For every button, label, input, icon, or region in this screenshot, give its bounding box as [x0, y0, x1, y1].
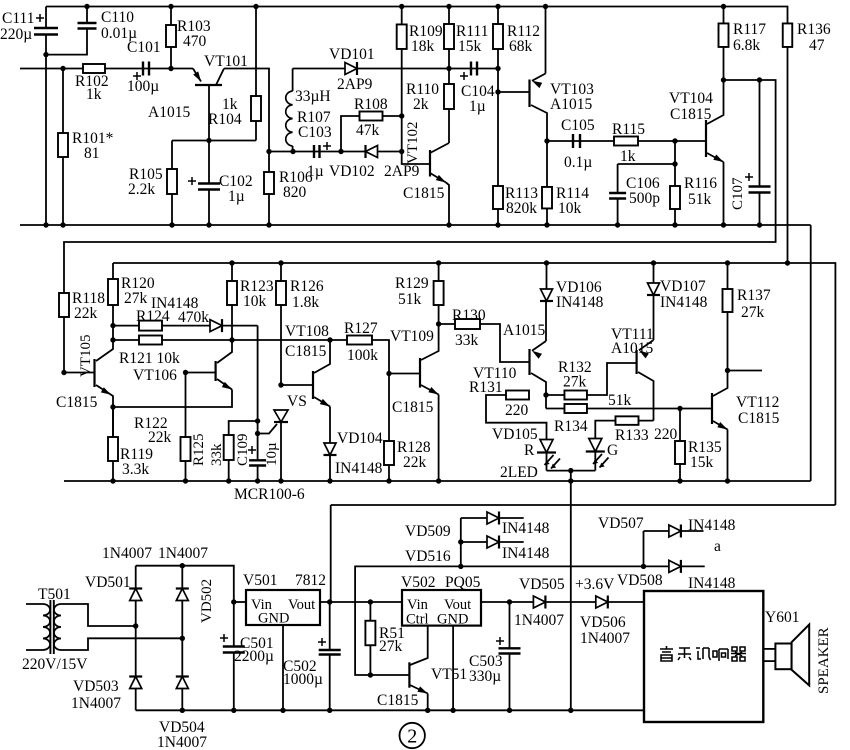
- svg-text:+3.6V: +3.6V: [575, 576, 615, 593]
- svg-text:2: 2: [407, 726, 417, 748]
- resistor R133 220: [616, 416, 639, 425]
- svg-text:1k: 1k: [86, 86, 102, 103]
- wire R130 line: [436, 321, 441, 326]
- svg-text:820k: 820k: [506, 200, 537, 217]
- svg-text:C1815: C1815: [285, 343, 327, 360]
- svg-text:Ctrl: Ctrl: [406, 612, 429, 628]
- wire middle ground rail: [64, 480, 811, 482]
- diode VD503 1N4007: [130, 677, 142, 689]
- wire +12V output line: [320, 601, 402, 603]
- resistor R116: [674, 164, 676, 186]
- svg-text:1N4007: 1N4007: [102, 545, 152, 562]
- svg-text:2k: 2k: [413, 96, 429, 113]
- svg-text:51k: 51k: [398, 291, 422, 308]
- svg-text:VD107: VD107: [660, 278, 706, 295]
- svg-text:VT109: VT109: [390, 328, 434, 345]
- capacitor C104: [471, 62, 477, 76]
- svg-text:IN4148: IN4148: [151, 295, 199, 312]
- svg-text:33k: 33k: [209, 443, 225, 466]
- svg-text:VD104: VD104: [337, 430, 383, 447]
- resistor R117: [721, 4, 726, 9]
- svg-text:IN4148: IN4148: [335, 460, 383, 477]
- wire LED cathode line to ground: [547, 470, 596, 472]
- svg-text:VS: VS: [287, 393, 307, 410]
- svg-text:27k: 27k: [563, 374, 587, 391]
- resistor R120: [112, 263, 114, 279]
- svg-text:68k: 68k: [509, 38, 533, 55]
- svg-text:R131: R131: [469, 379, 503, 396]
- capacitor C103: [314, 145, 320, 158]
- wire R132 line / VT111 base: [543, 392, 548, 397]
- wire ground rail drop to middle section: [810, 225, 812, 481]
- wire VD101 / C104 line: [293, 68, 498, 70]
- svg-text:VD516: VD516: [405, 548, 451, 565]
- wire R121 line: [113, 339, 347, 341]
- svg-text:R137: R137: [737, 287, 771, 304]
- svg-text:R134: R134: [554, 418, 588, 435]
- wire bridge left leg: [135, 566, 137, 711]
- svg-text:MCR100-6: MCR100-6: [234, 486, 305, 503]
- svg-text:820: 820: [283, 184, 307, 201]
- thyristor VS MCR100-6: [278, 382, 283, 387]
- svg-text:27k: 27k: [124, 290, 148, 307]
- svg-text:100k: 100k: [347, 347, 378, 364]
- wire C105/R115 line: [547, 140, 706, 142]
- resistor R111: [446, 4, 451, 9]
- resistor R119: [112, 407, 114, 437]
- svg-text:VD507: VD507: [598, 515, 644, 532]
- transistor VT106: [183, 370, 188, 375]
- capacitor C106: [618, 141, 675, 164]
- svg-text:A1015: A1015: [550, 96, 592, 113]
- resistor R51: [369, 602, 371, 621]
- resistor R129: [436, 260, 441, 265]
- capacitor C502: [329, 602, 331, 650]
- svg-text:51k: 51k: [688, 191, 712, 208]
- resistor R135: [677, 406, 682, 411]
- resistor R134 51k: [564, 404, 587, 413]
- resistor R103: [168, 4, 173, 9]
- svg-text:3.3k: 3.3k: [122, 461, 149, 478]
- svg-text:R125: R125: [191, 433, 207, 466]
- resistor R101: [60, 66, 65, 71]
- resistor R112: [495, 4, 500, 9]
- transistor VT104: [705, 120, 707, 157]
- transistor VT110: [528, 349, 530, 375]
- svg-text:220V/15V: 220V/15V: [22, 656, 88, 673]
- music IC Y601 box: [644, 591, 763, 722]
- svg-text:C1815: C1815: [56, 394, 98, 411]
- svg-text:10k: 10k: [558, 200, 582, 217]
- svg-text:C110: C110: [101, 9, 134, 26]
- svg-text:Vout: Vout: [288, 597, 315, 613]
- svg-text:VD505: VD505: [519, 576, 565, 593]
- diode VD103 IN4148: [210, 320, 222, 332]
- svg-text:SPEAKER: SPEAKER: [816, 627, 832, 694]
- wire R124 line: [113, 325, 258, 327]
- svg-text:C105: C105: [561, 117, 595, 134]
- svg-text:1µ: 1µ: [228, 188, 245, 205]
- svg-text:IN4148: IN4148: [556, 294, 604, 311]
- svg-text:7812: 7812: [295, 572, 326, 589]
- resistor R105: [171, 141, 173, 170]
- resistor R118: [59, 293, 69, 317]
- svg-text:C1815: C1815: [670, 106, 712, 123]
- capacitor C107: [759, 80, 761, 187]
- svg-text:10µ: 10µ: [264, 442, 280, 466]
- svg-text:R126: R126: [290, 278, 324, 295]
- svg-text:GND: GND: [437, 612, 468, 628]
- svg-text:220: 220: [654, 426, 678, 443]
- svg-text:500p: 500p: [629, 190, 660, 207]
- wire ground rail (top section): [20, 224, 811, 226]
- svg-text:R136: R136: [797, 21, 831, 38]
- svg-text:A1015: A1015: [503, 322, 545, 339]
- svg-text:1000µ: 1000µ: [283, 671, 323, 688]
- svg-text:R129: R129: [395, 275, 429, 292]
- transistor VT102: [429, 150, 431, 177]
- resistor R130 33k: [455, 319, 480, 329]
- svg-text:VT102: VT102: [405, 122, 421, 165]
- svg-text:V502: V502: [401, 574, 435, 591]
- svg-text:R127: R127: [344, 320, 378, 337]
- svg-text:VD102: VD102: [329, 163, 375, 180]
- svg-text:1N4007: 1N4007: [157, 734, 207, 750]
- svg-text:VT104: VT104: [669, 90, 713, 107]
- capacitor C105: [573, 134, 580, 148]
- svg-text:2LED: 2LED: [500, 464, 538, 481]
- resistor R136: [786, 7, 789, 24]
- wire output line R117 to feedback: [64, 80, 776, 293]
- svg-text:A1015: A1015: [611, 340, 653, 357]
- svg-text:VT101: VT101: [204, 53, 248, 70]
- svg-text:1.8k: 1.8k: [292, 294, 319, 311]
- diode VD102 2AP9: [366, 146, 378, 158]
- svg-text:VD101: VD101: [329, 46, 375, 63]
- resistor R137: [725, 260, 730, 265]
- svg-text:0.1µ: 0.1µ: [564, 154, 592, 171]
- transistor VT109: [419, 358, 421, 388]
- svg-text:R130: R130: [452, 307, 486, 324]
- wire base node line y=140.5: [172, 140, 256, 142]
- resistor R122: [185, 373, 187, 438]
- wire V502 GND lead: [452, 626, 454, 711]
- svg-text:220: 220: [505, 402, 529, 419]
- label music annunciator (stylized CJK strokes): [660, 646, 746, 661]
- capacitor C503: [509, 602, 511, 648]
- wire VD103 node vertical / C109 top: [257, 326, 259, 461]
- wire input line: [20, 68, 193, 70]
- transistor VT51: [408, 662, 410, 687]
- svg-text:47k: 47k: [356, 122, 380, 139]
- svg-text:Y601: Y601: [765, 609, 799, 626]
- wire R127 line: [347, 340, 420, 374]
- svg-text:VD506: VD506: [580, 614, 626, 631]
- svg-text:22k: 22k: [403, 454, 427, 471]
- capacitor C101: [143, 62, 149, 76]
- resistor R106: [268, 152, 270, 173]
- svg-text:A1015: A1015: [148, 104, 190, 121]
- capacitor C102: [208, 141, 210, 184]
- transformer T501: [26, 603, 43, 605]
- wire VD516 node to VT51 base: [355, 566, 461, 675]
- svg-text:IN4148: IN4148: [660, 294, 708, 311]
- svg-text:15k: 15k: [690, 454, 714, 471]
- svg-text:470: 470: [183, 33, 207, 50]
- regulator V501 7812: [234, 601, 246, 603]
- svg-text:2AP9: 2AP9: [337, 76, 373, 93]
- diode VD502 1N4007: [176, 589, 188, 601]
- svg-text:C1815: C1815: [392, 399, 434, 416]
- diode VD507 IN4148: [643, 531, 645, 566]
- svg-text:27k: 27k: [741, 304, 765, 321]
- svg-text:2AP9: 2AP9: [384, 163, 420, 180]
- capacitor C111: [45, 7, 47, 29]
- svg-text:VD508: VD508: [617, 572, 663, 589]
- wire R134 line / VT112 base: [545, 395, 547, 409]
- resistor R127 100k: [347, 336, 372, 345]
- svg-text:1k: 1k: [620, 148, 636, 165]
- capacitor C110: [84, 4, 89, 9]
- regulator V502 PQ05: [402, 590, 481, 626]
- resistor R132 27k: [564, 391, 587, 400]
- svg-text:22k: 22k: [148, 429, 172, 446]
- svg-text:C1815: C1815: [377, 692, 419, 709]
- svg-text:VD502: VD502: [199, 579, 215, 623]
- svg-text:PQ05: PQ05: [445, 574, 481, 591]
- wire transformer secondary to bridge: [61, 604, 136, 626]
- resistor R115: [614, 137, 638, 146]
- resistor R113: [497, 69, 499, 187]
- svg-text:R: R: [524, 442, 535, 459]
- svg-text:C101: C101: [127, 39, 161, 56]
- resistor R123: [229, 260, 234, 265]
- svg-text:IN4148: IN4148: [502, 545, 550, 562]
- svg-text:R115: R115: [612, 121, 645, 138]
- diode VD509 IN4148: [461, 517, 524, 519]
- diode VD107 IN4148: [651, 260, 656, 265]
- capacitor C109: [249, 460, 266, 465]
- diode VD106 IN4148: [544, 260, 549, 265]
- svg-text:R121 10k: R121 10k: [119, 350, 180, 367]
- svg-text:15k: 15k: [458, 38, 482, 55]
- resistor R108: [341, 116, 402, 152]
- svg-text:IN4148: IN4148: [502, 520, 550, 537]
- transistor VT112: [711, 393, 713, 424]
- svg-text:R133: R133: [615, 427, 649, 444]
- svg-text:47: 47: [809, 37, 825, 54]
- svg-text:2200µ: 2200µ: [234, 648, 274, 665]
- node R136 to middle rail: [785, 260, 790, 265]
- resistor R124 470k: [139, 321, 162, 331]
- resistor R131 220: [506, 391, 529, 400]
- svg-text:a: a: [714, 538, 721, 555]
- svg-text:VD503: VD503: [73, 678, 119, 695]
- svg-text:V501: V501: [243, 572, 277, 589]
- svg-text:C1815: C1815: [403, 185, 445, 202]
- resistor R126: [278, 260, 283, 265]
- svg-text:51k: 51k: [608, 392, 632, 409]
- svg-text:10k: 10k: [243, 293, 267, 310]
- wire C103/VD102 line: [269, 151, 402, 153]
- diode VD104 IN4148: [324, 443, 336, 455]
- svg-text:VT105: VT105: [78, 335, 94, 378]
- resistor R104: [253, 4, 258, 9]
- svg-text:R108: R108: [354, 96, 388, 113]
- transistor VT103: [498, 91, 530, 93]
- diode VD504 1N4007: [176, 677, 188, 689]
- svg-text:27k: 27k: [379, 638, 403, 655]
- svg-text:C103: C103: [298, 124, 332, 141]
- svg-text:C107: C107: [730, 177, 746, 210]
- svg-text:22k: 22k: [74, 305, 98, 322]
- wire middle +V rail: [113, 263, 835, 505]
- svg-text:VT108: VT108: [285, 323, 329, 340]
- wire R109 lead to VT102 base: [402, 116, 430, 164]
- svg-text:VT112: VT112: [736, 394, 779, 411]
- wire +12V distribution line: [331, 504, 836, 506]
- wire bridge top rail: [136, 566, 234, 602]
- wire V501 GND lead: [282, 625, 284, 710]
- wire top +V rail: [46, 6, 787, 8]
- capacitor C501: [231, 599, 236, 604]
- wire VT101 collector to C103 line: [224, 69, 269, 152]
- speaker Y601: [763, 648, 775, 650]
- resistor R102: [83, 64, 105, 73]
- svg-text:33k: 33k: [455, 332, 479, 349]
- svg-text:VT106: VT106: [133, 367, 177, 384]
- transistor VT105: [61, 370, 66, 375]
- resistor R121 10k: [139, 336, 162, 345]
- svg-text:2.2k: 2.2k: [128, 181, 155, 198]
- svg-text:T501: T501: [38, 586, 71, 603]
- svg-text:18k: 18k: [411, 38, 435, 55]
- LED VD133 G: [589, 439, 602, 452]
- wire bottom ground rail: [136, 709, 644, 711]
- svg-text:100µ: 100µ: [127, 78, 159, 95]
- diode VD505 1N4007: [533, 596, 545, 608]
- LED VD105 R: [540, 440, 553, 453]
- diode VD506 1N4007: [596, 596, 608, 608]
- inductor R107 33uH: [292, 69, 294, 92]
- transistor VT111: [635, 350, 637, 374]
- svg-text:R104: R104: [208, 111, 242, 128]
- resistor R109: [399, 4, 404, 9]
- svg-text:1N4007: 1N4007: [158, 545, 208, 562]
- svg-text:R117: R117: [733, 21, 766, 38]
- svg-text:C111: C111: [2, 10, 34, 27]
- svg-text:VD105: VD105: [492, 426, 538, 443]
- svg-text:1N4007: 1N4007: [580, 630, 630, 647]
- svg-text:R116: R116: [684, 175, 717, 192]
- wire VT112 collector stub: [725, 368, 730, 373]
- label circled 2: [400, 723, 425, 748]
- svg-text:1µ: 1µ: [469, 98, 486, 115]
- resistor R125: [229, 421, 258, 435]
- diode VD516 IN4148: [461, 541, 524, 543]
- wire bridge right leg: [181, 566, 183, 711]
- transistor VT101: [195, 84, 222, 86]
- diode VD101 2AP9: [345, 63, 357, 75]
- svg-text:6.8k: 6.8k: [733, 37, 760, 54]
- resistor R128: [386, 371, 391, 376]
- resistor R110: [448, 69, 450, 85]
- svg-text:33µH: 33µH: [295, 88, 331, 105]
- svg-text:1N4007: 1N4007: [514, 612, 564, 629]
- wire R133 line: [595, 421, 653, 439]
- svg-text:1N4007: 1N4007: [71, 695, 121, 712]
- wire VD508 line: [461, 565, 705, 567]
- wire V502 Vout to music IC +3.6V line: [481, 601, 644, 603]
- svg-text:IN4148: IN4148: [688, 517, 736, 534]
- svg-text:VD509: VD509: [405, 523, 451, 540]
- svg-text:81: 81: [84, 145, 100, 162]
- svg-text:C1815: C1815: [738, 410, 780, 427]
- svg-text:GND: GND: [258, 611, 289, 627]
- svg-text:VD501: VD501: [85, 574, 131, 591]
- svg-text:IN4148: IN4148: [688, 575, 736, 592]
- diode VD508 IN4148: [669, 560, 681, 572]
- svg-text:VT51: VT51: [431, 666, 467, 683]
- resistor R114: [546, 141, 548, 187]
- svg-text:330µ: 330µ: [469, 668, 501, 685]
- svg-text:G: G: [607, 442, 618, 459]
- transistor VT108: [281, 384, 313, 386]
- diode VD501 1N4007: [130, 589, 142, 601]
- svg-text:220µ: 220µ: [0, 26, 32, 43]
